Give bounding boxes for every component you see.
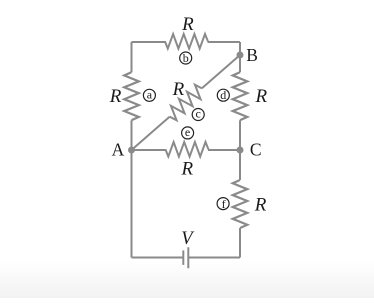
- svg-text:a: a: [147, 87, 153, 101]
- svg-text:c: c: [196, 107, 201, 121]
- svg-text:b: b: [183, 51, 189, 65]
- svg-text:R: R: [181, 14, 194, 35]
- svg-text:R: R: [109, 86, 122, 107]
- svg-text:R: R: [254, 194, 267, 215]
- svg-text:d: d: [220, 88, 226, 102]
- svg-text:e: e: [185, 125, 190, 139]
- svg-text:R: R: [180, 158, 193, 179]
- svg-text:B: B: [246, 45, 258, 65]
- svg-text:R: R: [254, 86, 267, 107]
- svg-text:C: C: [250, 140, 262, 160]
- svg-text:A: A: [112, 140, 125, 160]
- svg-text:R: R: [172, 79, 185, 100]
- svg-text:f: f: [222, 197, 226, 211]
